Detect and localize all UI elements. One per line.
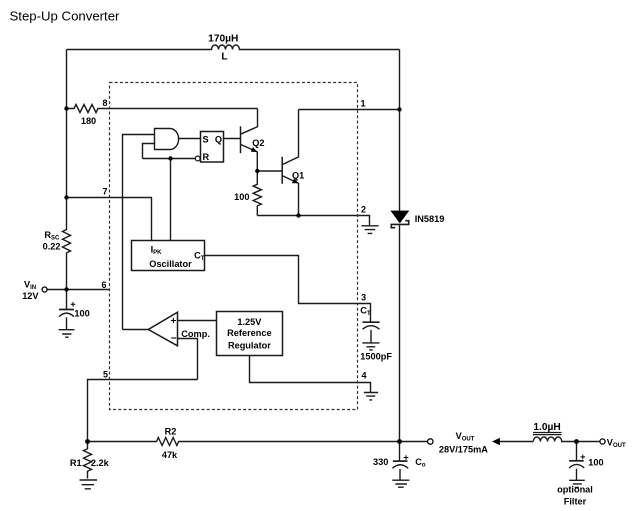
svg-text:Q: Q xyxy=(215,135,222,145)
svg-text:47k: 47k xyxy=(162,450,178,460)
svg-text:1500pF: 1500pF xyxy=(360,352,392,362)
svg-text:100: 100 xyxy=(74,309,89,319)
svg-text:CT: CT xyxy=(194,250,205,262)
svg-text:1.0µH: 1.0µH xyxy=(533,422,560,433)
svg-text:0.22: 0.22 xyxy=(43,241,61,251)
svg-text:Reference: Reference xyxy=(227,328,271,338)
svg-text:6: 6 xyxy=(101,280,106,290)
svg-text:R: R xyxy=(203,152,210,162)
svg-text:170µH: 170µH xyxy=(208,34,238,45)
svg-text:2.2k: 2.2k xyxy=(91,458,110,468)
svg-text:7: 7 xyxy=(102,186,107,196)
svg-text:12V: 12V xyxy=(22,291,39,301)
svg-text:100: 100 xyxy=(588,458,603,468)
svg-text:1: 1 xyxy=(360,98,365,108)
svg-text:R1: R1 xyxy=(70,458,82,468)
svg-text:28V/175mA: 28V/175mA xyxy=(439,444,488,454)
svg-text:RSC: RSC xyxy=(44,230,60,242)
svg-text:Regulator: Regulator xyxy=(228,341,271,351)
svg-text:5: 5 xyxy=(103,369,108,379)
svg-text:3: 3 xyxy=(361,293,366,303)
svg-text:S: S xyxy=(203,135,209,145)
svg-text:Filter: Filter xyxy=(564,497,587,507)
svg-text:L: L xyxy=(221,52,227,63)
svg-text:VOUT: VOUT xyxy=(607,438,626,450)
svg-text:R2: R2 xyxy=(165,426,177,436)
svg-text:Comp.: Comp. xyxy=(181,329,210,339)
svg-text:100: 100 xyxy=(234,192,249,202)
svg-text:330: 330 xyxy=(373,457,388,467)
svg-text:IPK: IPK xyxy=(151,245,163,257)
svg-text:2: 2 xyxy=(361,205,366,215)
svg-text:Co: Co xyxy=(415,457,426,469)
svg-text:1.25V: 1.25V xyxy=(237,317,262,327)
svg-text:180: 180 xyxy=(81,116,96,126)
svg-text:Q2: Q2 xyxy=(252,138,264,148)
svg-text:CT: CT xyxy=(360,305,371,317)
svg-text:Q1: Q1 xyxy=(292,170,304,180)
svg-text:VOUT: VOUT xyxy=(456,431,475,443)
svg-text:Oscillator: Oscillator xyxy=(149,259,192,269)
svg-text:optional: optional xyxy=(557,484,593,494)
svg-text:VIN: VIN xyxy=(24,279,36,291)
svg-text:Step-Up Converter: Step-Up Converter xyxy=(10,9,121,24)
svg-text:4: 4 xyxy=(361,370,366,380)
svg-text:IN5819: IN5819 xyxy=(415,214,445,224)
svg-text:8: 8 xyxy=(102,98,107,108)
